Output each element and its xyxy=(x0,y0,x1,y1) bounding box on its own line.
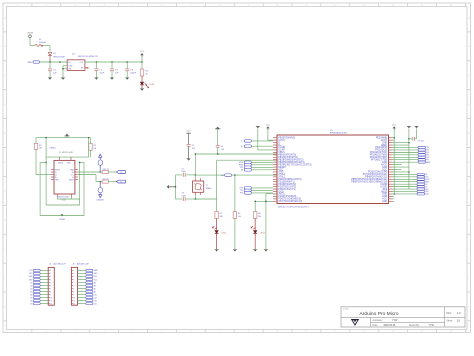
svg-text:YYW: YYW xyxy=(392,320,398,322)
wire fuse to diode xyxy=(43,46,50,52)
svg-text:3: 3 xyxy=(50,276,51,278)
resistor R1 xyxy=(140,69,143,76)
svg-text:A2: A2 xyxy=(94,284,96,287)
svg-text:F1: F1 xyxy=(39,39,42,41)
wire EN GND loop xyxy=(62,66,67,78)
wire RX LED drop xyxy=(216,199,218,212)
svg-text:10k: 10k xyxy=(238,216,241,218)
svg-text:9: 9 xyxy=(50,294,51,296)
svg-text:22pF: 22pF xyxy=(181,195,186,197)
svg-text:REV:: REV: xyxy=(446,312,452,315)
svg-text:11: 11 xyxy=(73,300,75,302)
svg-text:SCK: SCK xyxy=(425,177,429,179)
svg-text:D6: D6 xyxy=(30,294,32,296)
svg-text:TX0: TX0 xyxy=(29,270,32,272)
svg-text:D16: D16 xyxy=(94,300,97,302)
svg-text:OUT: OUT xyxy=(80,62,85,64)
wire XTAL1 up xyxy=(195,153,197,178)
svg-text:10uF: 10uF xyxy=(99,73,104,75)
LED D_RX xyxy=(212,226,218,233)
wire vcc right vertical xyxy=(393,130,395,195)
connector X1 pin labels xyxy=(55,163,75,182)
svg-text:PF7: PF7 xyxy=(426,159,429,161)
svg-text:VCC: VCC xyxy=(94,279,98,281)
svg-text:RXD: RXD xyxy=(425,191,429,193)
ground flag MCU topleft xyxy=(256,126,260,128)
label LED1 xyxy=(150,84,155,86)
title block Date xyxy=(373,324,396,327)
wire VCC to rail xyxy=(141,57,143,62)
ground below C3 xyxy=(110,78,114,80)
net flag D- xyxy=(116,180,125,183)
wire left pullup xyxy=(35,138,37,144)
svg-text:L: L xyxy=(468,325,470,327)
svg-text:R1: R1 xyxy=(146,70,150,72)
svg-text:D8: D8 xyxy=(425,184,427,186)
esd flag down arrow xyxy=(96,193,104,202)
wire R6 to LED3 xyxy=(254,219,256,231)
svg-text:QFN-44_L7.0-W7.0-P0.50-BL-EP5.: QFN-44_L7.0-W7.0-P0.50-BL-EP5.2 xyxy=(278,206,309,208)
wire UCAP to MCU xyxy=(195,153,277,155)
wire crystal left rail xyxy=(175,175,177,199)
power flag VUSB xyxy=(27,32,33,37)
capacitor C6 xyxy=(216,129,220,154)
svg-text:PF5: PF5 xyxy=(426,155,429,157)
capacitor C2 xyxy=(94,62,98,78)
svg-text:GND: GND xyxy=(55,179,60,181)
node VCC rail xyxy=(141,61,143,63)
title block REV xyxy=(446,311,461,315)
ground MCU bottom xyxy=(264,250,268,252)
svg-text:Company:: Company: xyxy=(373,320,384,322)
resistor RZ2 xyxy=(102,180,108,183)
wire usb outer wrap xyxy=(40,162,84,216)
svg-text:RZ2 22: RZ2 22 xyxy=(103,179,109,181)
wire R4 to LED2 xyxy=(216,219,218,231)
svg-text:7: 7 xyxy=(73,288,74,290)
svg-text:VUSB: VUSB xyxy=(59,219,65,221)
svg-text:100nF: 100nF xyxy=(130,73,137,75)
resistor R6 xyxy=(254,212,257,219)
MCU U1 body xyxy=(277,135,389,204)
svg-text:2: 2 xyxy=(73,273,74,275)
svg-text:A1: A1 xyxy=(94,287,96,290)
wire RZ2 to flag xyxy=(99,181,116,183)
net flag RAW xyxy=(28,61,40,64)
svg-text:D3: D3 xyxy=(30,285,32,287)
svg-text:C: C xyxy=(468,75,470,77)
svg-text:H: H xyxy=(468,220,470,222)
label U1 xyxy=(330,130,347,135)
svg-text:K: K xyxy=(468,306,470,308)
label U1 footprint xyxy=(278,206,309,208)
svg-text:11: 11 xyxy=(50,300,52,302)
svg-text:VCC: VCC xyxy=(392,124,397,126)
wire LED2 to gnd xyxy=(216,234,218,250)
svg-text:IC2: IC2 xyxy=(72,54,76,56)
label LED TX xyxy=(260,233,265,235)
svg-text:PF0: PF0 xyxy=(426,147,429,149)
svg-text:K: K xyxy=(4,306,6,308)
ground below LED1 xyxy=(140,89,144,91)
net flag group PB xyxy=(239,161,273,172)
svg-text:Sheet:: Sheet: xyxy=(446,319,453,322)
svg-text:D5: D5 xyxy=(30,291,32,293)
wire MCU gnd bottom xyxy=(255,194,273,250)
label C5 xyxy=(192,145,196,150)
wire D- from X1 xyxy=(78,171,101,173)
svg-text:I: I xyxy=(469,248,470,250)
wire gnd right B stem xyxy=(416,129,418,139)
capacitor C3 xyxy=(110,62,114,78)
svg-text:D1: D1 xyxy=(53,53,57,55)
connector J1 xyxy=(29,267,55,305)
svg-text:ATMEGA32U4-MU: ATMEGA32U4-MU xyxy=(330,132,347,135)
svg-text:C2: C2 xyxy=(99,69,103,71)
capacitor C8 xyxy=(176,197,199,201)
svg-text:A3: A3 xyxy=(94,281,96,284)
label D1 xyxy=(53,53,66,58)
svg-text:Drawn By:: Drawn By: xyxy=(409,324,420,327)
svg-text:RZ1 22: RZ1 22 xyxy=(103,169,109,171)
svg-text:MISO: MISO xyxy=(425,181,430,183)
svg-text:RAW: RAW xyxy=(28,61,32,64)
node crystal gnd tap xyxy=(175,186,177,188)
svg-text:RAW: RAW xyxy=(94,269,98,272)
wire reset drop xyxy=(234,175,236,212)
ground flag right B xyxy=(415,126,419,128)
svg-text:4: 4 xyxy=(50,279,51,281)
label C6 xyxy=(221,146,225,151)
svg-text:VUSB: VUSB xyxy=(27,32,33,34)
resistor R2 xyxy=(34,143,37,149)
svg-text:PF1: PF1 xyxy=(426,150,429,152)
wire xtal2 to MCU xyxy=(195,160,277,199)
label F1 xyxy=(39,39,46,44)
svg-text:6: 6 xyxy=(73,285,74,287)
title block TITLE label xyxy=(343,309,349,311)
label R2 xyxy=(39,145,42,150)
power flag VCC MCU right xyxy=(392,124,397,130)
svg-text:C9 1uF: C9 1uF xyxy=(418,141,425,143)
wire usb top rail xyxy=(36,136,91,138)
label R6 xyxy=(258,213,261,218)
svg-text:AQY-M01-12P: AQY-M01-12P xyxy=(54,263,67,266)
svg-text:GND: GND xyxy=(382,201,387,203)
svg-text:D4: D4 xyxy=(30,288,32,290)
title block frame xyxy=(341,307,465,327)
ground below C1 xyxy=(48,78,52,80)
label Y1 xyxy=(206,185,212,190)
svg-text:G: G xyxy=(4,191,6,193)
net oval U1F xyxy=(98,160,103,172)
svg-text:H: H xyxy=(4,220,6,222)
svg-text:16MHz: 16MHz xyxy=(206,188,212,190)
wire usb loop left xyxy=(40,138,47,205)
wire RAW to regulator xyxy=(40,61,67,63)
svg-text:USB01: USB01 xyxy=(49,148,56,150)
svg-text:VCC: VCC xyxy=(140,51,145,53)
label R4 xyxy=(220,213,223,218)
svg-text:GND: GND xyxy=(69,65,74,67)
net flag group PBr xyxy=(393,173,431,195)
fuse F1 xyxy=(35,44,43,46)
svg-text:J: J xyxy=(468,277,469,279)
svg-text:TITLE:: TITLE: xyxy=(343,309,349,311)
svg-text:PF6: PF6 xyxy=(426,157,429,159)
svg-text:C4: C4 xyxy=(130,69,134,71)
svg-text:F: F xyxy=(468,162,470,164)
svg-text:D+: D+ xyxy=(120,172,122,174)
svg-text:9: 9 xyxy=(73,294,74,296)
svg-text:A: A xyxy=(468,16,470,19)
wire usb shield top xyxy=(46,138,89,158)
label J2 xyxy=(72,263,89,266)
svg-text:B: B xyxy=(4,46,6,48)
connector X1 pins xyxy=(51,157,78,197)
svg-text:3: 3 xyxy=(73,276,74,278)
svg-text:C3: C3 xyxy=(115,69,119,71)
label C4 xyxy=(130,69,137,74)
svg-text:B: B xyxy=(468,46,470,48)
svg-text:1: 1 xyxy=(73,270,74,272)
connector X1 body xyxy=(54,160,75,194)
label IC2 xyxy=(72,54,98,59)
svg-text:A: A xyxy=(4,16,6,19)
net flag D+ xyxy=(116,171,125,174)
svg-text:I: I xyxy=(5,248,6,250)
svg-text:SS: SS xyxy=(241,170,244,172)
svg-text:VCC: VCC xyxy=(186,131,191,133)
svg-text:1M: 1M xyxy=(39,148,42,150)
svg-text:C: C xyxy=(4,75,6,77)
svg-text:1uF: 1uF xyxy=(53,73,57,75)
ground below C5 xyxy=(187,159,191,161)
wire R2 down xyxy=(36,149,51,174)
connector J2 xyxy=(71,267,98,305)
label RZ2 xyxy=(103,179,109,181)
ground below LED2 xyxy=(215,250,219,252)
wire R5 to gnd xyxy=(234,219,236,250)
svg-text:F: F xyxy=(4,162,6,164)
net flag group PD xyxy=(240,187,273,195)
svg-text:330: 330 xyxy=(258,216,261,218)
title block Drawn By xyxy=(409,324,435,327)
svg-text:PD5: PD5 xyxy=(240,193,243,195)
label C1 xyxy=(53,69,57,74)
net flag XTAL2 xyxy=(221,174,232,177)
svg-text:EN: EN xyxy=(69,68,72,70)
svg-text:D10: D10 xyxy=(94,303,97,305)
svg-text:AQY-M01-12P: AQY-M01-12P xyxy=(77,263,90,266)
svg-text:D9: D9 xyxy=(30,303,32,305)
svg-text:10: 10 xyxy=(50,297,52,299)
net label VUSB bottom xyxy=(59,219,65,221)
svg-text:1uF: 1uF xyxy=(192,148,196,150)
svg-text:VCC: VCC xyxy=(266,124,271,126)
svg-text:C1: C1 xyxy=(53,69,57,71)
MCU left pin names xyxy=(278,136,311,203)
crystal Y1 xyxy=(193,178,204,195)
label R5 xyxy=(238,213,241,218)
svg-text:1uF: 1uF xyxy=(115,73,119,75)
svg-text:GND: GND xyxy=(94,273,99,275)
svg-text:PF4: PF4 xyxy=(426,152,429,154)
wire LED3 to gnd xyxy=(254,234,256,250)
svg-text:GND: GND xyxy=(67,163,72,165)
svg-text:G: G xyxy=(468,191,470,193)
svg-text:10: 10 xyxy=(73,297,75,299)
svg-text:J1: J1 xyxy=(49,264,52,266)
ground flag crystal left xyxy=(167,185,176,189)
svg-text:Date:: Date: xyxy=(373,324,379,327)
svg-text:MOSI: MOSI xyxy=(425,179,430,181)
svg-text:D+: D+ xyxy=(241,146,243,148)
svg-text:LED2: LED2 xyxy=(222,233,227,235)
label C7 xyxy=(181,169,186,174)
label J1 xyxy=(49,263,66,266)
capacitor C9 xyxy=(409,137,417,141)
node C4 tap xyxy=(126,61,128,63)
wire XTAL2 down xyxy=(195,195,197,200)
svg-text:D9: D9 xyxy=(425,186,427,188)
power flag VCC MCU topleft xyxy=(266,124,271,130)
ground flag UGND up xyxy=(215,127,221,129)
svg-text:IN: IN xyxy=(69,62,71,64)
pin BP stub xyxy=(85,67,89,69)
svg-text:L: L xyxy=(4,325,6,327)
svg-text:1.0: 1.0 xyxy=(457,311,461,315)
LED D_LED1 xyxy=(140,82,148,88)
svg-text:VBUS: VBUS xyxy=(69,179,75,181)
node C2 tap xyxy=(96,61,98,63)
svg-text:22pF: 22pF xyxy=(181,171,186,173)
svg-text:D-: D- xyxy=(241,141,243,143)
node J1 power rail xyxy=(49,61,51,63)
LED D_TX xyxy=(251,226,257,233)
svg-text:TXD: TXD xyxy=(425,189,429,191)
power flag VCC crystal xyxy=(186,131,191,135)
svg-text:5: 5 xyxy=(50,282,51,284)
resistor RZ1 xyxy=(100,170,108,173)
ground below C2 xyxy=(94,78,98,80)
svg-text:5S-B: 5S-B xyxy=(62,199,67,201)
wire usb loop bottom2 xyxy=(46,199,80,205)
svg-text:E: E xyxy=(4,133,6,135)
svg-text:Arduino Pro Micro: Arduino Pro Micro xyxy=(360,311,399,317)
power flag VCC top xyxy=(140,51,145,57)
wire VCC to R1 xyxy=(141,62,143,69)
wire xtal1 to MCU xyxy=(195,174,277,176)
resistor R4 xyxy=(215,212,218,219)
node usb rail left xyxy=(45,137,47,139)
node C3 tap xyxy=(111,61,113,63)
title block logo xyxy=(351,319,359,326)
svg-text:SS: SS xyxy=(425,174,427,176)
capacitor C1 xyxy=(48,62,52,78)
wire VUSB down xyxy=(30,38,35,46)
svg-text:D14: D14 xyxy=(94,297,97,299)
svg-text:MICRO-USB: MICRO-USB xyxy=(58,197,69,199)
wire D+ from X1 xyxy=(78,175,102,182)
wire gnd topleft xyxy=(258,129,273,150)
svg-text:J: J xyxy=(4,277,5,279)
svg-text:LED3: LED3 xyxy=(260,233,265,235)
svg-text:2: 2 xyxy=(50,273,51,275)
svg-text:7: 7 xyxy=(50,288,51,290)
svg-text:2020-05-26: 2020-05-26 xyxy=(384,325,396,327)
MCU right pin names xyxy=(351,137,388,203)
svg-text:1/1: 1/1 xyxy=(457,319,461,322)
ground below C4 xyxy=(125,78,129,80)
svg-text:RX1: RX1 xyxy=(29,273,32,275)
ground below LED3 xyxy=(253,250,257,252)
svg-text:D: D xyxy=(468,104,470,106)
label R3 xyxy=(93,145,96,150)
label C2 xyxy=(99,69,104,74)
svg-text:D: D xyxy=(4,104,6,106)
label C9 xyxy=(418,141,425,143)
net flag D+ mcu xyxy=(241,145,273,148)
wire R1 to LED1 xyxy=(141,76,143,82)
svg-text:1uF: 1uF xyxy=(221,149,225,151)
power flag UVCC xyxy=(65,133,70,136)
svg-text:12: 12 xyxy=(73,303,75,305)
label USB01 xyxy=(49,148,56,150)
label C3 xyxy=(115,69,119,74)
node VUSB tap xyxy=(61,214,63,216)
svg-text:A0: A0 xyxy=(94,290,96,293)
title block Sheet xyxy=(446,319,460,322)
label R1 xyxy=(146,70,150,75)
svg-text:D2: D2 xyxy=(30,282,32,284)
wire gnd right A vertical xyxy=(408,129,410,190)
regulator IC2 xyxy=(67,60,85,71)
svg-text:D15: D15 xyxy=(94,294,97,296)
diode D1 xyxy=(48,52,52,62)
capacitor C7 xyxy=(176,173,196,177)
label RZ1 xyxy=(103,169,109,171)
svg-text:LED1: LED1 xyxy=(150,84,155,86)
wire RZ1 to flag xyxy=(108,171,116,173)
svg-text:8: 8 xyxy=(50,291,51,293)
label X1 footprint xyxy=(58,197,69,202)
ground below R5 xyxy=(233,250,237,252)
svg-text:1M: 1M xyxy=(93,148,96,150)
label C8 xyxy=(181,193,186,198)
svg-text:E: E xyxy=(468,133,470,135)
svg-text:X1 MICRO-USB: X1 MICRO-USB xyxy=(59,152,73,154)
svg-text:BP: BP xyxy=(81,67,84,69)
capacitor C5 xyxy=(187,134,191,158)
svg-text:VBUS: VBUS xyxy=(58,163,64,165)
esd flag up arrow xyxy=(99,154,102,159)
svg-text:1: 1 xyxy=(50,270,51,272)
wire LED1 to ground xyxy=(141,85,143,89)
wire right tie rows xyxy=(393,138,409,202)
svg-text:GRN-DIODE: GRN-DIODE xyxy=(53,57,66,59)
ground flag right A xyxy=(407,126,411,128)
svg-text:USB-ESD: USB-ESD xyxy=(96,200,104,202)
svg-text:5: 5 xyxy=(73,282,74,284)
ground below IC2 xyxy=(61,78,65,80)
resistor R3 xyxy=(89,144,92,151)
net oval U2F xyxy=(98,182,103,193)
svg-text:D7: D7 xyxy=(30,297,32,299)
node J2 power rail xyxy=(59,61,61,63)
node usb rail right xyxy=(88,137,90,139)
svg-text:500mA: 500mA xyxy=(39,41,46,44)
